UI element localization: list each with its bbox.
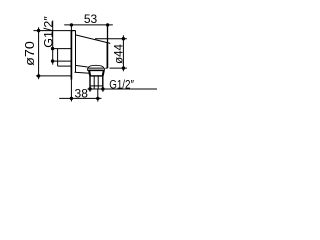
- G1/2 inlet top arrow dot: [51, 47, 54, 50]
- inlet stub top edge: [53, 48, 72, 50]
- flange back face: [75, 31, 77, 73]
- housing bottom sliver: [105, 67, 107, 69]
- G1/2 inlet bottom arrow dot: [51, 59, 54, 62]
- left dot tail: [89, 89, 91, 92]
- phi70 top arrow dot: [37, 29, 40, 32]
- svg-text:53: 53: [84, 12, 98, 26]
- dimension 53 left arrow dot: [70, 23, 73, 26]
- svg-text:38: 38: [75, 87, 89, 101]
- phi44 top arrow dot: [122, 37, 125, 40]
- body top edge: [76, 35, 111, 44]
- dimension phi70 vertical line: [38, 27, 40, 79]
- thread inner left line: [93, 77, 95, 89]
- dimension 53 right extension tail down to body edge: [107, 25, 109, 43]
- outlet thread right arrow dot: [101, 87, 104, 90]
- phi70 top extension to flange: [34, 30, 76, 32]
- dimension 53 line: [64, 24, 113, 26]
- dimension 38 left arrow dot: [70, 97, 73, 100]
- right dot tail: [102, 89, 104, 92]
- dimension 53 left extension tail down to flange top: [70, 26, 72, 31]
- phi70 bottom arrow dot: [37, 74, 40, 77]
- svg-text:G1/2″: G1/2″: [109, 79, 134, 92]
- dome base band: [88, 68, 105, 71]
- flange front face extension down to 38 dot: [70, 80, 72, 102]
- phi70 bottom extension to flange: [36, 75, 71, 77]
- dimension 38 right arrow dot: [96, 97, 99, 100]
- svg-text:ø44: ø44: [113, 43, 125, 63]
- dimension G1/2 inlet vertical line: [52, 21, 54, 65]
- dimension 38 line: [59, 97, 101, 99]
- phi44 bottom extension line: [110, 67, 127, 69]
- dimension 38 right extension: [97, 89, 99, 102]
- thread bottom edge: [90, 85, 103, 87]
- sleeve bottom edge: [75, 71, 90, 74]
- outlet left wall: [88, 71, 91, 76]
- outlet right wall: [102, 71, 105, 76]
- phi44 bottom arrow dot: [122, 66, 125, 69]
- outlet collar bottom bar: [89, 75, 103, 77]
- inlet stub end face: [57, 49, 59, 67]
- flange front face: [70, 31, 72, 80]
- flange top edge: [71, 30, 75, 32]
- svg-text:G1/2″: G1/2″: [42, 16, 56, 48]
- housing right edge: [106, 43, 108, 69]
- svg-text:ø70: ø70: [23, 41, 37, 66]
- outlet thread dimension line and label underline: [88, 88, 158, 90]
- dimension 53 right arrow dot: [106, 23, 109, 26]
- dimension phi44 vertical line: [122, 35, 124, 71]
- ball dome: [88, 65, 104, 68]
- phi44 top extension line: [95, 38, 127, 40]
- outlet thread left arrow dot: [88, 87, 91, 90]
- thread inner right line: [97, 77, 99, 89]
- inlet stub bottom edge: [53, 60, 72, 62]
- body bottom edge: [76, 65, 88, 67]
- inlet stub lower step edge: [58, 65, 72, 67]
